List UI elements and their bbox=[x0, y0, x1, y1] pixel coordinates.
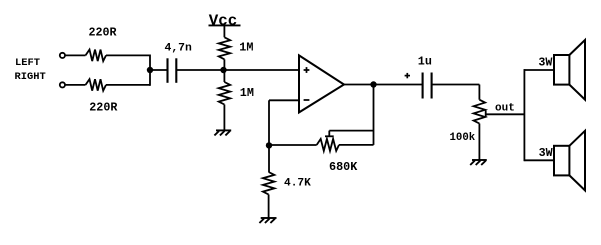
svg-text:3W: 3W bbox=[538, 55, 553, 69]
svg-text:220R: 220R bbox=[89, 25, 117, 39]
svg-text:RIGHT: RIGHT bbox=[15, 71, 46, 83]
svg-text:out: out bbox=[495, 103, 515, 115]
svg-text:Vcc: Vcc bbox=[209, 12, 237, 30]
svg-text:680K: 680K bbox=[329, 160, 358, 174]
svg-text:1M: 1M bbox=[240, 86, 254, 100]
svg-text:4.7K: 4.7K bbox=[284, 177, 311, 189]
svg-text:LEFT: LEFT bbox=[15, 57, 40, 69]
svg-text:1M: 1M bbox=[239, 41, 253, 55]
svg-text:220R: 220R bbox=[89, 100, 117, 114]
svg-text:100k: 100k bbox=[450, 132, 476, 144]
svg-text:3W: 3W bbox=[539, 146, 554, 160]
svg-text:4,7n: 4,7n bbox=[165, 42, 193, 54]
svg-text:1u: 1u bbox=[418, 55, 432, 69]
